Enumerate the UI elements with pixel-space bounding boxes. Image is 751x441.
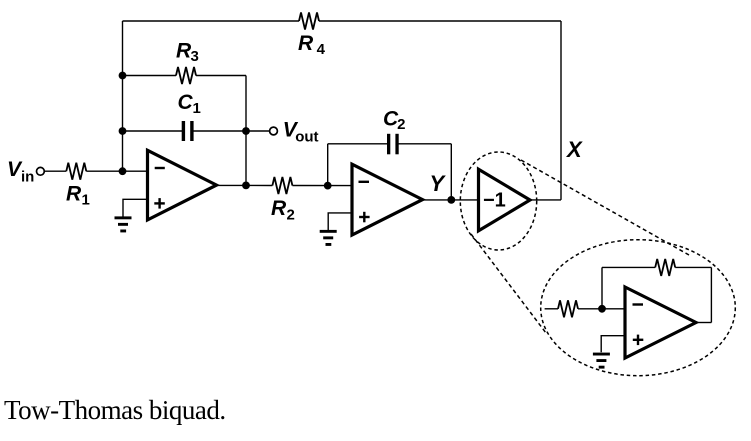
resistor inset input	[558, 300, 578, 317]
wire	[45, 170, 67, 172]
wire	[545, 308, 558, 310]
node G	[447, 196, 455, 204]
svg-text:3: 3	[191, 48, 199, 65]
zoom ellipse	[541, 240, 736, 376]
wire	[123, 75, 177, 77]
wire	[328, 143, 388, 145]
capacitor C2	[387, 134, 399, 155]
wire	[530, 199, 561, 201]
node C	[119, 127, 127, 135]
node E	[242, 182, 250, 190]
wire	[675, 266, 711, 268]
svg-text:Tow-Thomas biquad.: Tow-Thomas biquad.	[4, 395, 226, 425]
label R4	[298, 32, 326, 58]
svg-text:out: out	[295, 128, 318, 145]
wire	[602, 266, 655, 268]
wire	[578, 308, 625, 310]
label R3	[176, 39, 199, 65]
wire	[196, 75, 246, 77]
wire	[601, 336, 625, 353]
wire	[292, 185, 352, 187]
svg-text:1: 1	[193, 100, 201, 117]
input terminal Vin	[37, 167, 45, 175]
node B	[119, 72, 127, 80]
wire	[246, 184, 272, 186]
wire	[423, 199, 452, 201]
op-amp U3	[625, 287, 696, 358]
resistor inset feedback	[655, 259, 675, 276]
zoom circle	[460, 152, 536, 250]
zoom line	[521, 160, 689, 255]
resistor R4	[299, 13, 319, 30]
wire	[123, 199, 148, 216]
svg-text:C: C	[178, 91, 194, 114]
resistor R2	[272, 177, 292, 194]
wire	[710, 267, 712, 322]
wire	[398, 143, 451, 145]
wire	[123, 20, 300, 22]
svg-text:2: 2	[397, 116, 405, 133]
wire	[696, 322, 711, 324]
wire	[245, 76, 247, 186]
resistor R1	[66, 163, 86, 180]
svg-text:−1: −1	[483, 190, 506, 212]
wire	[123, 130, 183, 132]
label C1	[178, 91, 201, 117]
ground	[593, 353, 610, 369]
node A	[119, 167, 127, 175]
svg-text:R: R	[271, 197, 287, 220]
svg-text:X: X	[565, 137, 583, 162]
svg-text:4: 4	[317, 41, 326, 58]
label Vout	[283, 119, 319, 146]
inverter buffer -1	[479, 169, 531, 231]
resistor R3	[176, 67, 196, 84]
wire	[327, 144, 329, 186]
wire	[451, 199, 478, 201]
svg-text:R: R	[298, 32, 314, 55]
wire	[450, 144, 452, 200]
ground	[115, 216, 132, 232]
op-amp U1	[148, 150, 217, 220]
wire	[319, 20, 561, 22]
wire	[122, 21, 124, 171]
wire	[193, 130, 246, 132]
node H	[598, 305, 606, 313]
svg-text:Y: Y	[430, 171, 447, 196]
wire	[217, 184, 247, 186]
wire	[86, 170, 147, 172]
label C2	[383, 108, 405, 133]
svg-text:1: 1	[82, 192, 90, 209]
svg-text:in: in	[21, 169, 34, 186]
svg-text:R: R	[66, 182, 82, 205]
capacitor C1	[182, 121, 194, 141]
op-amp U2	[352, 164, 423, 235]
svg-text:2: 2	[287, 207, 295, 224]
wire	[246, 130, 270, 132]
zoom line	[471, 234, 546, 333]
ground	[320, 230, 337, 246]
label Vin	[7, 158, 34, 186]
node F	[324, 182, 332, 190]
wire	[328, 213, 352, 230]
wire	[560, 21, 562, 200]
output terminal Vout	[270, 127, 278, 135]
label R2	[271, 197, 295, 224]
wire	[601, 267, 603, 308]
node D	[242, 127, 250, 135]
label R1	[66, 182, 90, 208]
